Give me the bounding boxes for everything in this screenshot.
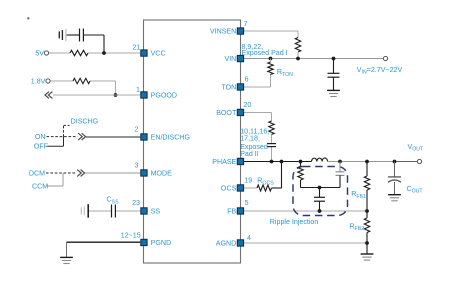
node PGOOD junction — [114, 93, 118, 97]
wire MODE to pin — [85, 172, 140, 174]
wire 1.8V pullup — [50, 80, 73, 82]
node FB divider junction — [365, 209, 369, 213]
resistor R_BOOT — [269, 121, 274, 135]
wire cap to ground — [66, 34, 80, 36]
resistor R (VINSEN filter) — [295, 38, 300, 53]
svg-text:23: 23 — [132, 199, 140, 207]
svg-text:AGND: AGND — [216, 239, 237, 247]
svg-text:7: 7 — [244, 20, 248, 28]
ground (SS cap) — [87, 204, 89, 218]
svg-text:PGOOD: PGOOD — [151, 91, 177, 99]
capacitor C_inj — [319, 188, 321, 198]
svg-text:ON: ON — [35, 133, 46, 141]
ripple injection dashed box — [293, 167, 348, 216]
inductor L1 — [312, 158, 328, 162]
capacitor C (VCC decoupling) — [79, 29, 81, 42]
capacitor C_OUT — [394, 162, 396, 177]
svg-text:TON: TON — [221, 83, 236, 91]
svg-text:VIN: VIN — [224, 55, 236, 63]
node input cap junction — [332, 57, 336, 61]
svg-text:Exposed Pad I: Exposed Pad I — [242, 49, 288, 57]
wire 5V to VCC pin — [49, 52, 70, 54]
wire output rail — [328, 161, 395, 163]
svg-text:VCC: VCC — [151, 49, 166, 57]
svg-text:CCM: CCM — [32, 182, 48, 190]
wire PGOOD line — [53, 94, 140, 96]
wire ripple mid node — [301, 187, 341, 189]
wire CCM branch — [47, 185, 64, 187]
wire VIN rail — [244, 58, 383, 60]
wire decoupling branch — [103, 35, 105, 53]
node A (stray period mark) — [27, 17, 29, 19]
node ripple R junction — [299, 160, 303, 164]
node V_IN terminal — [383, 56, 387, 60]
wire VIN cap — [333, 59, 335, 74]
capacitor C_ff — [339, 162, 341, 172]
node OCS junction — [280, 160, 284, 164]
resistor R_TON — [268, 62, 273, 75]
node AGND junction — [365, 241, 369, 245]
svg-text:3: 3 — [135, 161, 139, 169]
resistor R_inj — [300, 162, 302, 167]
svg-text:4: 4 — [247, 234, 251, 242]
node BOOT cap junction — [270, 160, 274, 164]
wire DISCHG dashed branch — [63, 125, 65, 136]
ground (AGND) — [361, 253, 374, 255]
ground (VCC cap) — [65, 29, 67, 41]
resistor R (5V to VCC) — [70, 50, 88, 55]
node ripple cap junction — [318, 209, 322, 213]
ground (C_OUT) — [388, 194, 401, 196]
svg-text:MODE: MODE — [151, 169, 173, 177]
wire PGND to ground — [67, 241, 141, 243]
node 5V terminal — [44, 51, 48, 55]
svg-text:PHASE: PHASE — [212, 158, 236, 166]
node VCC junction — [102, 51, 106, 55]
wire AGND to ground — [366, 243, 368, 254]
svg-text:1.8V: 1.8V — [31, 77, 46, 85]
svg-text:5: 5 — [245, 199, 249, 207]
svg-text:1: 1 — [136, 86, 140, 94]
svg-text:21: 21 — [132, 43, 140, 51]
svg-text:PGND: PGND — [151, 239, 172, 247]
wire VINSEN — [244, 30, 298, 32]
resistor R_FB2 — [366, 211, 368, 218]
node MODE chevron — [77, 170, 81, 177]
svg-text:19: 19 — [244, 177, 252, 185]
svg-text:20: 20 — [243, 101, 251, 109]
wire EN to pin — [86, 136, 140, 138]
node R_TON junction — [269, 57, 273, 61]
capacitor C_BOOT — [267, 143, 276, 145]
capacitor C_SS — [111, 205, 113, 218]
node VINSEN junction — [296, 57, 300, 61]
node C_OUT junction — [393, 160, 397, 164]
wire BOOT — [244, 112, 272, 114]
node ripple mid junction — [318, 186, 322, 190]
node 1.8V terminal — [46, 79, 50, 83]
node EN chevron — [78, 133, 82, 140]
svg-text:12~15: 12~15 — [121, 232, 141, 240]
svg-text:DCM: DCM — [29, 169, 45, 177]
svg-text:VINSEN: VINSEN — [210, 27, 236, 35]
resistor R_FB1 — [366, 162, 368, 177]
svg-text:EN/DISCHG: EN/DISCHG — [151, 133, 190, 141]
capacitor C_IN — [328, 72, 340, 74]
svg-text:OCS: OCS — [221, 184, 237, 192]
wire ON dashed — [47, 136, 78, 138]
svg-text:Ripple Injection: Ripple Injection — [270, 218, 319, 226]
svg-text:DISCHG: DISCHG — [71, 118, 99, 126]
node R_FB1 junction — [365, 160, 369, 164]
svg-text:6: 6 — [245, 76, 249, 84]
ground (input cap) — [327, 89, 340, 91]
wire TON — [244, 86, 271, 88]
wire OCS — [244, 187, 257, 189]
node PGOOD off-page chevron — [45, 92, 49, 99]
resistor R (PGOOD pullup) — [73, 78, 90, 83]
wire AGND — [244, 242, 367, 244]
svg-text:2: 2 — [135, 126, 139, 134]
resistor R_OCS — [257, 185, 272, 191]
svg-text:SS: SS — [151, 207, 161, 215]
wire SS cap — [89, 210, 112, 212]
wire VINSEN resistor to VIN rail — [297, 52, 299, 59]
svg-text:FB: FB — [227, 207, 236, 215]
svg-text:17,18,: 17,18, — [240, 135, 260, 143]
node V_OUT terminal — [417, 159, 421, 163]
svg-text:5V: 5V — [35, 49, 44, 57]
wire OFF branch — [47, 145, 64, 147]
svg-text:Pad II: Pad II — [240, 150, 259, 158]
wire PHASE to inductor — [244, 161, 312, 163]
wire FB — [244, 210, 367, 212]
svg-text:OFF: OFF — [34, 143, 49, 151]
ground (PGND) — [60, 256, 73, 258]
node Cff junction — [338, 160, 342, 164]
wire DCM dashed — [46, 172, 77, 174]
svg-text:BOOT: BOOT — [216, 109, 237, 117]
op-amp U1 (buck converter IC body) — [144, 20, 241, 263]
